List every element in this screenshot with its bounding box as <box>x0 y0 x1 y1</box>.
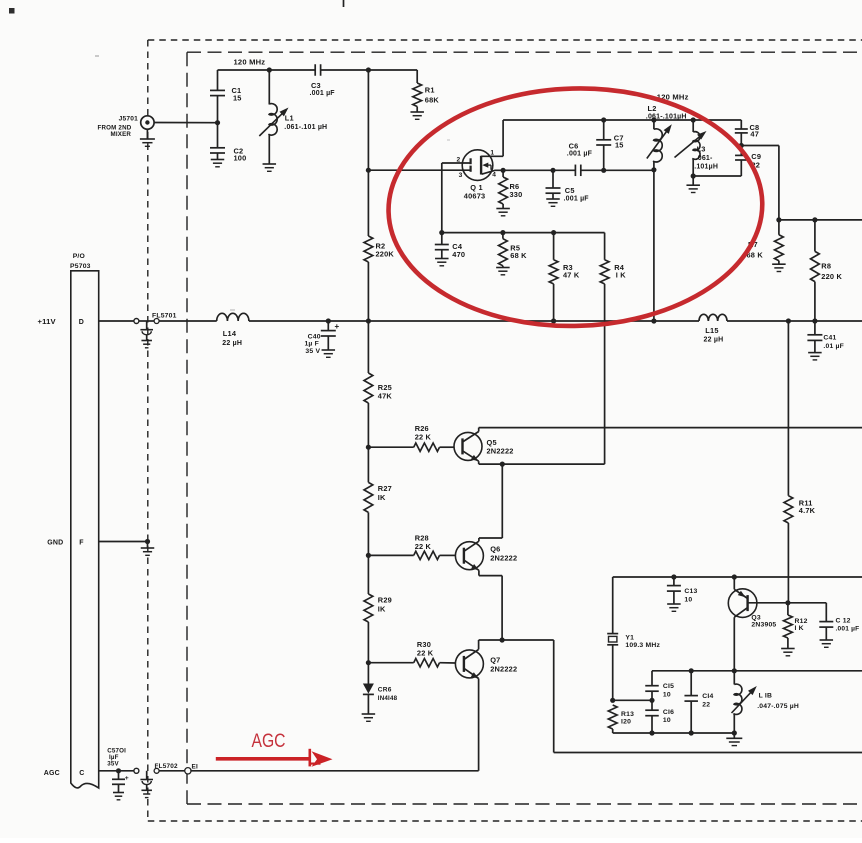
wire drain rail (Q1 to C8) <box>503 119 741 121</box>
ground (pin F) <box>141 542 155 556</box>
wire R27 to R28 node <box>367 512 369 555</box>
resistor R5 <box>499 233 528 268</box>
wire L2 bottom to +11V rail <box>653 170 655 321</box>
node C4 top <box>439 230 444 235</box>
svg-text:35 V: 35 V <box>305 348 320 355</box>
svg-text:P/O: P/O <box>73 253 85 260</box>
svg-text:C13: C13 <box>684 588 697 595</box>
crystal Y1 <box>607 634 660 701</box>
svg-text:2: 2 <box>457 156 461 163</box>
capacitor C2 <box>210 123 246 163</box>
capacitor C13 <box>667 577 698 604</box>
svg-text:MIXER: MIXER <box>111 131 132 138</box>
svg-text:AGC: AGC <box>252 731 286 752</box>
node R12 top <box>785 600 790 605</box>
resistor R8 <box>811 220 843 321</box>
svg-text:.01 µF: .01 µF <box>823 343 844 350</box>
resistor R25 <box>364 373 392 403</box>
node L2 rail junction <box>651 318 656 323</box>
red annotation text AGC <box>252 731 286 752</box>
wire gate-2 bias (vertical) <box>441 163 443 233</box>
svg-text:47: 47 <box>750 129 759 138</box>
node C7 bottom <box>601 168 606 173</box>
node R30 branch <box>366 660 371 665</box>
node L3 top <box>691 117 696 122</box>
capacitor C5701 (polarized) <box>107 747 129 792</box>
svg-text:2N2222: 2N2222 <box>490 554 517 563</box>
svg-text:1µ F: 1µ F <box>304 340 319 347</box>
svg-text:I K: I K <box>616 270 627 279</box>
capacitor C7 <box>596 120 623 170</box>
svg-text:R1: R1 <box>425 85 435 94</box>
capacitor C3 <box>310 64 336 97</box>
wire gate-2 to Q1 pin 2 <box>442 162 471 164</box>
ground (L18) <box>726 733 742 746</box>
wire R25 to R26 node <box>367 403 369 447</box>
node C5 top <box>550 168 555 173</box>
wire Y1 node to C15/C16 node <box>613 699 652 701</box>
resistor R7 <box>747 220 784 264</box>
svg-text:68 K: 68 K <box>510 251 527 260</box>
resistor R1 <box>413 70 440 112</box>
wire L14 to R2 node <box>249 320 369 322</box>
outer shield dashed border (left) <box>147 40 149 821</box>
svg-text:100: 100 <box>234 153 247 162</box>
label AGC / pin C <box>44 770 85 777</box>
svg-text:40673: 40673 <box>464 191 486 200</box>
svg-text:3: 3 <box>459 172 463 179</box>
wire oscillator bottom row <box>613 732 735 734</box>
feedthrough FL5701 <box>134 312 177 348</box>
node Q1 source <box>501 168 506 173</box>
wire R4 to Q5 emitter row <box>604 284 606 464</box>
node C1/C2 junction <box>215 120 220 125</box>
svg-text:R29: R29 <box>378 595 392 604</box>
node R26 branch <box>366 445 371 450</box>
ground (C40) <box>322 350 336 357</box>
ground (C2) <box>211 160 225 167</box>
svg-text:P5703: P5703 <box>70 263 91 270</box>
ground (R6) <box>496 209 510 216</box>
node R8 top <box>812 217 817 222</box>
node C13 top <box>671 574 676 579</box>
wire AGC output row to edge <box>554 752 862 754</box>
svg-text:FL5701: FL5701 <box>152 312 177 319</box>
svg-text:C 12: C 12 <box>836 617 851 624</box>
inductor L18 (variable) <box>732 671 800 733</box>
node C16 bottom <box>649 730 654 735</box>
svg-text:.061-: .061- <box>696 155 713 162</box>
svg-text:J5701: J5701 <box>119 116 138 123</box>
svg-text:EI: EI <box>192 764 198 771</box>
svg-text:I20: I20 <box>621 718 631 725</box>
svg-text:R27: R27 <box>378 484 392 493</box>
outer shield dashed border (bottom) <box>148 820 862 822</box>
resistor R11 <box>784 496 816 523</box>
wire oscillator top row <box>613 576 862 578</box>
capacitor C14 <box>684 671 713 733</box>
wire tap to output column <box>741 145 779 147</box>
wire +11V pin to FL5701 <box>99 320 136 322</box>
ground (C12) <box>820 640 834 647</box>
svg-text:Y1: Y1 <box>625 634 634 641</box>
svg-text:4.7K: 4.7K <box>799 506 816 515</box>
transistor Q3 2N3905 (PNP) <box>728 589 776 629</box>
svg-text:.001 µF: .001 µF <box>836 626 860 633</box>
node C3 output <box>366 67 371 72</box>
svg-text:.101µH: .101µH <box>694 163 718 170</box>
svg-text:.001 µF: .001 µF <box>310 90 336 97</box>
wire FL5702 to E1 <box>159 770 186 772</box>
capacitor C1 <box>210 70 242 123</box>
svg-text:10: 10 <box>663 717 671 724</box>
svg-text:Q3: Q3 <box>751 614 760 621</box>
wire Q3 emitter <box>733 577 735 589</box>
resistor R12 <box>784 603 808 649</box>
node L1 top <box>267 67 272 72</box>
wire Q3 base row <box>748 602 827 604</box>
wire +11V rail (right) <box>727 320 862 322</box>
svg-text:35V: 35V <box>107 760 119 767</box>
capacitor C9 <box>735 146 761 177</box>
svg-text:Q6: Q6 <box>490 545 500 554</box>
wire top rail (C1 to C3) <box>218 69 316 71</box>
ground (J5701) <box>140 129 155 146</box>
capacitor C5 <box>546 170 590 202</box>
svg-text:I K: I K <box>795 625 804 632</box>
scan artifact tick top-center <box>343 0 345 7</box>
svg-text:C: C <box>79 770 84 777</box>
inner shield dashed border (left) <box>186 52 188 804</box>
wire AGC pin to C5701 <box>99 770 134 772</box>
wire R28 node to R29 <box>367 555 369 594</box>
label Q1 <box>464 183 486 200</box>
ground (R1) <box>410 112 424 119</box>
svg-text:GND: GND <box>47 540 63 547</box>
svg-text:C3: C3 <box>311 81 321 90</box>
wire gate-1 (node to Q1 pin 3) <box>368 169 470 171</box>
ground (C5701) <box>113 793 124 800</box>
wire Q5 collector row to edge <box>479 427 862 429</box>
wire C3 to R1 <box>321 69 418 71</box>
node L18 bottom <box>732 730 737 735</box>
inner shield dashed border (bottom) <box>187 803 862 805</box>
svg-text:220K: 220K <box>376 249 395 258</box>
svg-text:4: 4 <box>492 171 496 178</box>
wire Q5 collector <box>478 428 480 432</box>
node L3 bottom <box>691 173 696 178</box>
capacitor C40 (polarized) <box>304 321 339 355</box>
capacitor C15 <box>645 671 674 701</box>
ground (R5) <box>496 268 510 275</box>
svg-text:.061-.101 µH: .061-.101 µH <box>284 124 327 131</box>
svg-text:F: F <box>79 540 84 547</box>
svg-text:.001 µF: .001 µF <box>567 150 593 157</box>
wire Y1 column (top) <box>612 577 614 634</box>
resistor R26 <box>368 424 454 452</box>
svg-text:22 K: 22 K <box>415 542 432 551</box>
svg-text:CI6: CI6 <box>663 709 674 716</box>
wire Q3 collector <box>733 617 735 671</box>
terminal E1 <box>185 764 198 774</box>
svg-text:22: 22 <box>702 701 710 708</box>
node C8/C9 tap <box>739 143 744 148</box>
capacitor C4 <box>435 233 465 259</box>
node R5 top <box>500 230 505 235</box>
node C14 bottom <box>689 730 694 735</box>
wire AGC output column <box>553 640 555 753</box>
wire Q7 collector riser <box>478 640 480 649</box>
transistor Q1 40673 (dual-gate MOSFET) <box>457 149 504 180</box>
svg-text:IN4I48: IN4I48 <box>378 695 398 702</box>
svg-text:.047-.075 µH: .047-.075 µH <box>757 703 799 710</box>
feedthrough FL5702 <box>134 763 178 798</box>
label 120 MHz (input) <box>234 57 266 66</box>
inductor L2 (variable) <box>646 104 687 170</box>
node R8/C41 rail junction <box>812 318 817 323</box>
node L2 top <box>651 117 656 122</box>
connector P/O P5703 (bar) <box>70 253 99 788</box>
inner shield dashed border (top) <box>187 51 862 53</box>
node C5701 tap <box>116 768 121 773</box>
ground (R7) <box>772 264 786 271</box>
resistor R4 <box>600 233 626 284</box>
inductor L1 (variable) <box>259 70 327 164</box>
wire Q5 emitter <box>478 461 480 464</box>
red annotation arrow <box>216 749 333 767</box>
node gate-1 branch <box>366 168 371 173</box>
svg-text:47K: 47K <box>378 391 393 400</box>
node R2/R25 rail junction <box>366 318 371 323</box>
svg-text:+: + <box>125 775 129 782</box>
svg-text:1: 1 <box>490 149 494 156</box>
svg-text:IK: IK <box>378 604 386 613</box>
wire FL5701 to L14 <box>159 320 217 322</box>
wire Q1 drain up <box>502 120 504 156</box>
node R11 rail tap <box>786 318 791 323</box>
node C40 tap <box>326 318 331 323</box>
capacitor C6 <box>567 142 593 176</box>
transistor Q6 2N2222 <box>455 541 517 570</box>
svg-text:2N3905: 2N3905 <box>751 622 776 629</box>
wire Q5 emitter row <box>479 463 605 465</box>
wire +11V rail (middle) <box>368 320 654 322</box>
resistor R27 <box>364 482 392 512</box>
wire C9 bottom to L3 bottom <box>693 175 741 177</box>
wire R29 to R30 node <box>367 622 369 663</box>
ground (C5) <box>546 199 560 206</box>
capacitor C8 <box>735 120 760 146</box>
svg-text:AGC: AGC <box>44 770 60 777</box>
svg-text:68K: 68K <box>425 95 440 104</box>
label 120 MHz (L2 tank) <box>657 93 689 102</box>
wire R11 to Q3 base node <box>787 523 789 603</box>
node R28 branch <box>366 553 371 558</box>
svg-text:C6: C6 <box>569 142 579 151</box>
svg-text:15: 15 <box>615 141 624 150</box>
node Q6 collector tap <box>500 462 505 467</box>
svg-text:470: 470 <box>452 250 465 259</box>
node GND chassis <box>145 539 150 544</box>
wire output row to edge <box>779 219 862 221</box>
node R13 top <box>610 698 615 703</box>
wire Q7 collector row <box>479 639 554 641</box>
svg-text:22 µH: 22 µH <box>704 336 724 343</box>
label +11V / pin D <box>38 317 85 326</box>
node R3 bottom <box>551 318 556 323</box>
inductor L14 <box>217 313 249 347</box>
svg-text:CI4: CI4 <box>702 693 713 700</box>
wire R26 node to R27 <box>367 447 369 482</box>
wire R11 column from rail <box>787 321 789 496</box>
outer shield dashed border (top) <box>148 39 862 41</box>
svg-text:220 K: 220 K <box>821 272 842 281</box>
svg-text:+11V: +11V <box>38 317 57 326</box>
resistor R30 <box>368 640 455 667</box>
capacitor C41 <box>807 321 844 353</box>
label GND / pin F <box>47 540 84 547</box>
svg-text:22 K: 22 K <box>415 432 432 441</box>
svg-text:2N2222: 2N2222 <box>487 447 514 456</box>
svg-text:L IB: L IB <box>759 692 773 699</box>
svg-text:10: 10 <box>663 691 671 698</box>
svg-text:L3: L3 <box>697 144 706 153</box>
svg-text:C40: C40 <box>308 333 321 340</box>
svg-text:D: D <box>79 319 84 326</box>
svg-text:120 MHz: 120 MHz <box>234 57 266 66</box>
svg-text:.001 µF: .001 µF <box>564 195 590 202</box>
ground (C13) <box>667 604 681 611</box>
resistor R3 <box>549 233 580 321</box>
capacitor C16 <box>645 700 674 733</box>
wire Q6 collector riser <box>479 464 502 541</box>
svg-text:109.3 MHz: 109.3 MHz <box>625 642 660 649</box>
svg-text:47 K: 47 K <box>563 270 580 279</box>
svg-text:330: 330 <box>510 190 523 199</box>
svg-text:R8: R8 <box>821 261 831 270</box>
svg-text:22 K: 22 K <box>417 648 434 657</box>
wire gate-2 bias node row <box>442 232 605 234</box>
wire rail to R25 <box>367 321 369 373</box>
resistor R29 <box>364 594 392 622</box>
svg-text:.061-.101µH: .061-.101µH <box>646 113 687 120</box>
ground (C4) <box>435 259 449 266</box>
inductor L3 (variable) <box>675 120 719 176</box>
svg-text:C5: C5 <box>565 186 575 195</box>
resistor R28 <box>368 533 455 559</box>
resistor R2 <box>364 236 394 262</box>
node C15/C16 junction <box>649 698 654 703</box>
node C14 top <box>689 668 694 673</box>
wire oscillator mid row <box>652 670 862 672</box>
node L2 bottom <box>651 167 656 172</box>
inductor L15 <box>699 314 727 343</box>
ground (L3) <box>686 176 700 193</box>
svg-text:10: 10 <box>684 596 692 603</box>
svg-text:Q7: Q7 <box>490 655 500 664</box>
svg-text:R13: R13 <box>621 711 634 718</box>
wire output column down <box>778 146 780 220</box>
svg-text:22 µH: 22 µH <box>222 340 242 347</box>
ground (L1) <box>263 164 277 171</box>
svg-text:L15: L15 <box>705 326 718 335</box>
ground (CR6) <box>362 714 376 721</box>
node Q3 collector tap <box>732 668 737 673</box>
transistor Q5 2N2222 <box>454 432 514 462</box>
wire +11V rail (L15 segment) <box>654 320 699 322</box>
ground (C41) <box>808 353 822 360</box>
svg-text:L14: L14 <box>223 329 237 338</box>
svg-text:15: 15 <box>233 93 242 102</box>
node Q7 collector tap <box>500 637 505 642</box>
node R7 top <box>776 217 781 222</box>
connector J5701 <box>98 116 155 138</box>
wire C3 node down to gate node <box>367 70 369 236</box>
wire J5701 to C1/C2 node <box>154 122 217 124</box>
diode CR6 1N4148 <box>363 663 398 714</box>
svg-text:L1: L1 <box>285 114 294 123</box>
resistor R6 <box>499 170 523 208</box>
wire Q6 emitter path <box>479 570 502 640</box>
wire AGC line (E1 to Q7) <box>190 770 478 772</box>
resistor R13 <box>608 705 634 733</box>
wire Q7 emitter to AGC line <box>478 679 480 771</box>
svg-text:L2: L2 <box>648 104 657 113</box>
wire R2 to +11V rail <box>367 262 369 321</box>
node R3 top <box>551 230 556 235</box>
svg-text:R12: R12 <box>795 618 808 625</box>
node C5701? none - rail <box>139 320 155 322</box>
svg-text:FL5702: FL5702 <box>155 763 178 770</box>
node Q3 emitter top <box>732 574 737 579</box>
transistor Q7 2N2222 <box>455 649 517 678</box>
svg-text:2N2222: 2N2222 <box>490 664 517 673</box>
ground (R12) <box>781 649 795 656</box>
svg-text:CI5: CI5 <box>663 683 674 690</box>
red annotation ellipse <box>385 84 765 331</box>
svg-text:CR6: CR6 <box>378 686 392 693</box>
wire GND pin to chassis <box>99 541 148 543</box>
scan artifact square top-left <box>9 8 15 14</box>
svg-text:+: + <box>335 322 340 331</box>
node C7 top <box>601 117 606 122</box>
capacitor C12 <box>819 603 859 640</box>
svg-text:IK: IK <box>378 493 386 502</box>
svg-text:C41: C41 <box>823 334 836 341</box>
wire source rail (Q1 to L2 bottom) <box>503 169 654 171</box>
scan smudge <box>95 55 450 311</box>
